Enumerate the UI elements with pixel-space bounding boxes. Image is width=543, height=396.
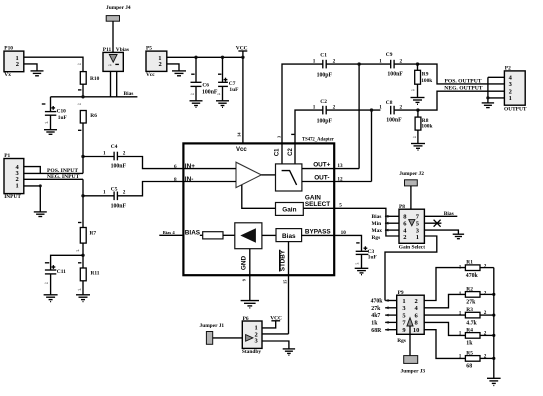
wire P9 pin6 to R3 bbox=[424, 314, 465, 316]
wire R5 to bus bbox=[480, 357, 494, 359]
svg-text:2: 2 bbox=[400, 58, 403, 64]
svg-text:1: 1 bbox=[509, 95, 512, 102]
capacitor C4 bbox=[114, 152, 117, 161]
node C7 tap bbox=[221, 56, 224, 59]
svg-text:NEG. OUTPUT: NEG. OUTPUT bbox=[444, 86, 482, 92]
node OUT- C2 junction bbox=[370, 108, 373, 111]
resistor R9 bbox=[417, 64, 419, 70]
wire P8 pin5 stub bbox=[424, 222, 441, 224]
resistor R5 bbox=[465, 356, 480, 362]
svg-text:100nF: 100nF bbox=[111, 163, 127, 169]
wire P8 Bias stub left bbox=[385, 215, 399, 217]
capacitor C8 bbox=[391, 106, 394, 115]
svg-text:C9: C9 bbox=[386, 52, 393, 58]
wire P9 row5 stub bbox=[385, 329, 397, 331]
pin dash R7-1 bbox=[78, 222, 81, 224]
node C6 tap bbox=[194, 56, 197, 59]
pin dash C3-1 bbox=[356, 242, 359, 244]
wire P2 pin2 stub bbox=[488, 90, 505, 92]
svg-text:c4: c4 bbox=[355, 262, 359, 266]
svg-text:Bias 4: Bias 4 bbox=[163, 230, 176, 235]
wire P9 to J3 bbox=[409, 326, 411, 356]
wire STDBY pin to P6 bbox=[288, 242, 290, 334]
capacitor C11 plus bbox=[52, 265, 56, 269]
node C4 tap bbox=[81, 155, 84, 158]
wire OUT- bbox=[302, 181, 372, 183]
capacitor C5 bbox=[114, 192, 117, 201]
P8 selector triangle bbox=[409, 220, 415, 226]
wire NEG chain down bbox=[82, 179, 84, 227]
wire P10 pin1 to R10 bbox=[24, 57, 83, 71]
svg-text:1: 1 bbox=[313, 104, 316, 110]
svg-text:Bias: Bias bbox=[124, 91, 134, 97]
wire BYPASS to C3 bbox=[334, 235, 361, 251]
svg-text:Max: Max bbox=[372, 228, 383, 234]
P9 selector triangle bbox=[407, 318, 413, 326]
wire P1 pin1 to ground bbox=[24, 186, 41, 212]
pin dash C6-1 bbox=[191, 73, 194, 75]
wire BIAS stub bbox=[159, 234, 182, 236]
ground at C11 bbox=[44, 295, 58, 302]
svg-text:c4: c4 bbox=[45, 281, 49, 285]
wire P9 row4 stub bbox=[385, 321, 397, 323]
svg-text:2: 2 bbox=[484, 264, 487, 270]
wire C1 left bbox=[282, 64, 323, 164]
wire IN- inside bbox=[183, 181, 236, 183]
VCC bar bbox=[238, 50, 247, 52]
svg-text:STDBY: STDBY bbox=[280, 249, 287, 271]
node P2 bus junction bbox=[486, 96, 489, 99]
svg-text:P10: P10 bbox=[4, 46, 13, 52]
ground at R9 bbox=[411, 98, 425, 105]
wire BYPASS inside bbox=[302, 234, 335, 236]
svg-text:TS472_Adapter: TS472_Adapter bbox=[302, 138, 334, 143]
svg-text:12: 12 bbox=[337, 176, 343, 182]
svg-text:R2: R2 bbox=[466, 286, 473, 292]
wire R4 to bus bbox=[480, 334, 494, 336]
ground at C6 bbox=[190, 101, 203, 108]
jumper J3 bbox=[404, 356, 418, 364]
capacitor C7 plus bbox=[224, 78, 228, 82]
svg-text:c4: c4 bbox=[78, 287, 82, 291]
svg-text:1: 1 bbox=[313, 58, 316, 64]
wire R8 to ground bbox=[417, 130, 419, 143]
wire P6 pin3 to ground bbox=[262, 341, 289, 349]
wire P8 pin1 to P9 pin1 bbox=[385, 236, 437, 301]
wire OUT+ bbox=[302, 168, 359, 170]
svg-text:1: 1 bbox=[16, 182, 19, 189]
node R9 junction bbox=[416, 62, 419, 65]
resistor R1 bbox=[465, 265, 480, 271]
arrow 4k7 bbox=[385, 314, 389, 317]
wire POS.OUTPUT bbox=[418, 64, 488, 84]
svg-text:POS. INPUT: POS. INPUT bbox=[47, 168, 78, 174]
svg-text:1uF: 1uF bbox=[58, 115, 68, 121]
wire P8 Min stub bbox=[385, 222, 399, 224]
capacitor C7 bbox=[218, 82, 228, 86]
svg-text:c4: c4 bbox=[411, 88, 415, 92]
resistor R2 bbox=[465, 292, 480, 298]
op-amp U1 outline (TS472 adapter block) bbox=[183, 143, 334, 275]
wire P9 pin2 to R1 bbox=[424, 268, 465, 301]
wire P9 row3 stub bbox=[385, 314, 397, 316]
wire C1 right to OUT+ node bbox=[326, 63, 359, 65]
resistor R8 bbox=[417, 110, 419, 117]
wire C6 to ground bbox=[195, 86, 197, 100]
wire P9 row1 stub bbox=[385, 300, 397, 302]
ground at resistor bus bbox=[487, 378, 501, 385]
wire gain tap bbox=[242, 185, 276, 208]
svg-text:c4: c4 bbox=[191, 92, 195, 96]
pin dash C7-1 bbox=[218, 73, 221, 75]
svg-text:BYPASS: BYPASS bbox=[305, 229, 332, 236]
svg-text:OUT+: OUT+ bbox=[313, 161, 330, 168]
svg-text:C4: C4 bbox=[111, 144, 118, 150]
pin dash R10-2 bbox=[78, 89, 81, 91]
wire amp to Bias block bbox=[262, 234, 276, 236]
svg-text:R3: R3 bbox=[466, 307, 473, 313]
svg-text:4k7: 4k7 bbox=[371, 313, 380, 319]
svg-text:100k: 100k bbox=[421, 124, 432, 130]
capacitor C1 bbox=[323, 60, 326, 69]
bias amp triangle bbox=[240, 228, 256, 242]
svg-text:5: 5 bbox=[339, 203, 342, 209]
svg-text:1uF: 1uF bbox=[229, 87, 239, 93]
svg-text:1: 1 bbox=[103, 190, 106, 196]
svg-text:R6: R6 bbox=[90, 113, 97, 119]
svg-text:GND: GND bbox=[241, 256, 248, 271]
svg-text:Vbias: Vbias bbox=[116, 47, 129, 53]
svg-text:Vcc: Vcc bbox=[146, 72, 155, 78]
connector P5 bbox=[146, 51, 167, 71]
resistor R7 bbox=[80, 228, 86, 244]
svg-text:1: 1 bbox=[459, 354, 462, 360]
svg-text:c4: c4 bbox=[78, 62, 82, 66]
svg-text:1: 1 bbox=[379, 59, 382, 65]
svg-text:68R: 68R bbox=[371, 328, 382, 334]
bias amp block bbox=[235, 223, 262, 249]
limiter curve bbox=[282, 171, 297, 185]
svg-text:100pF: 100pF bbox=[317, 118, 333, 124]
jumper J2 bbox=[405, 180, 418, 186]
ground at P1 bbox=[34, 212, 47, 217]
svg-text:Bias: Bias bbox=[444, 211, 454, 217]
wire C8 to R8 node bbox=[394, 109, 418, 111]
wire P9 row2 stub bbox=[385, 307, 397, 309]
svg-text:C11: C11 bbox=[57, 269, 66, 275]
arrow 1k bbox=[385, 321, 389, 324]
svg-text:Jumper J1: Jumper J1 bbox=[200, 323, 225, 329]
svg-text:R9: R9 bbox=[422, 71, 429, 77]
svg-text:1: 1 bbox=[459, 291, 462, 297]
wire R3 to bus bbox=[480, 314, 494, 316]
svg-text:68: 68 bbox=[466, 364, 472, 370]
svg-text:C7: C7 bbox=[229, 81, 236, 87]
wire J2 to P8 bbox=[410, 186, 412, 220]
capacitor C3 bbox=[356, 251, 369, 254]
svg-text:1: 1 bbox=[416, 234, 419, 241]
svg-text:1: 1 bbox=[103, 150, 106, 156]
arrow 27k bbox=[385, 306, 389, 309]
svg-text:Vx: Vx bbox=[4, 72, 11, 78]
wire P11 pin2 leg bbox=[116, 71, 118, 96]
no-connect X bbox=[434, 220, 441, 227]
svg-text:Vcc: Vcc bbox=[236, 147, 247, 153]
svg-text:27k: 27k bbox=[371, 306, 381, 312]
capacitor C6 bbox=[191, 82, 202, 86]
resistor R4 bbox=[465, 333, 480, 339]
P6 selector triangle bbox=[246, 335, 253, 342]
connector P8 bbox=[399, 209, 424, 243]
svg-text:SELECT: SELECT bbox=[305, 201, 330, 208]
node OUT+ C1 junction bbox=[357, 62, 360, 65]
svg-text:Jumper J3: Jumper J3 bbox=[401, 369, 426, 375]
connector P1 bbox=[4, 159, 24, 194]
wire C2 right to OUT- node bbox=[326, 109, 380, 111]
wire C10 drop bbox=[50, 97, 52, 112]
svg-text:1k: 1k bbox=[371, 321, 378, 327]
svg-text:1: 1 bbox=[459, 264, 462, 270]
node R5 bus bbox=[492, 357, 495, 360]
arrow 68R bbox=[385, 328, 389, 331]
node VCC junction bbox=[241, 56, 244, 59]
wire P2 pin4 stub bbox=[488, 76, 505, 78]
wire C4 to IN+ bbox=[117, 157, 182, 169]
jumper J4 bbox=[106, 16, 119, 22]
wire P9 pin4 to R2 bbox=[424, 294, 465, 307]
node R8 junction bbox=[416, 108, 419, 111]
wire to C5 bbox=[83, 195, 114, 197]
wire GAIN SELECT inside bbox=[303, 207, 334, 209]
svg-text:c4: c4 bbox=[108, 63, 112, 67]
svg-text:Jumper J4: Jumper J4 bbox=[106, 5, 131, 11]
svg-text:1: 1 bbox=[379, 105, 382, 111]
svg-text:NEG. INPUT: NEG. INPUT bbox=[47, 174, 80, 180]
arrow Bias bbox=[385, 215, 389, 218]
pin 1 rotated dash bbox=[291, 133, 294, 135]
wire P2 ground bus bbox=[487, 77, 489, 102]
pin dash C11-1 bbox=[45, 262, 49, 264]
wire GAIN SELECT to P8 pin2 bbox=[334, 208, 399, 236]
wire R2 to bus bbox=[480, 293, 494, 295]
node C5 tap bbox=[81, 194, 84, 197]
svg-text:2: 2 bbox=[403, 234, 406, 241]
wire R1 to bus bbox=[480, 267, 494, 269]
svg-text:2: 2 bbox=[400, 104, 403, 110]
ground at P6 pin3 bbox=[283, 349, 295, 355]
svg-text:1k: 1k bbox=[466, 341, 473, 347]
svg-text:2: 2 bbox=[158, 61, 161, 68]
wire P10 pin2 to ground bbox=[24, 64, 37, 71]
node P1 pin1 corner bbox=[39, 184, 42, 187]
svg-text:c4: c4 bbox=[217, 92, 221, 96]
svg-text:C10: C10 bbox=[57, 109, 67, 115]
wire J4 to P11 bbox=[112, 21, 114, 55]
arrow Min bbox=[385, 222, 389, 225]
svg-text:C8: C8 bbox=[386, 100, 393, 106]
svg-text:P5: P5 bbox=[146, 46, 152, 52]
svg-text:C5: C5 bbox=[111, 186, 118, 192]
wire P8 pin7 Bias stub right bbox=[424, 215, 457, 217]
svg-text:POS. OUTPUT: POS. OUTPUT bbox=[445, 78, 482, 84]
wire P11 pin1 leg bbox=[110, 71, 112, 96]
svg-text:C2: C2 bbox=[288, 148, 294, 156]
svg-text:C2: C2 bbox=[320, 99, 327, 105]
resistor R6 bbox=[80, 111, 86, 124]
svg-text:R7: R7 bbox=[90, 231, 97, 237]
svg-text:8: 8 bbox=[174, 177, 177, 183]
ground at P2 bbox=[482, 103, 494, 108]
wire Vbias node horizontal bbox=[51, 96, 138, 98]
wire P1 pin4 jog bbox=[24, 167, 41, 174]
resistor R10 bbox=[80, 72, 86, 85]
svg-text:R5: R5 bbox=[466, 350, 473, 356]
ground at R8 bbox=[411, 144, 425, 151]
wire C10 to ground bbox=[50, 115, 52, 129]
svg-text:c4: c4 bbox=[76, 249, 80, 253]
resistor R3 bbox=[465, 312, 480, 318]
wire NEG.OUTPUT bbox=[418, 91, 488, 110]
wire C11 to ground bbox=[50, 274, 52, 295]
ground at IC GND bbox=[241, 301, 259, 308]
svg-text:2: 2 bbox=[123, 190, 126, 196]
svg-text:R1: R1 bbox=[466, 260, 473, 266]
wire VCC drop bbox=[242, 51, 244, 57]
wire resistor bus bbox=[493, 268, 495, 378]
capacitor C9 bbox=[391, 60, 394, 69]
svg-text:c4: c4 bbox=[413, 135, 417, 139]
capacitor C2 bbox=[323, 106, 326, 115]
svg-text:C1: C1 bbox=[275, 148, 281, 156]
svg-text:Jumper J2: Jumper J2 bbox=[399, 171, 424, 177]
node R4 bus bbox=[492, 334, 495, 337]
jumper J1 bbox=[206, 332, 212, 345]
ground at P10 bbox=[31, 71, 44, 76]
svg-text:P6: P6 bbox=[243, 316, 249, 322]
svg-text:Rgs: Rgs bbox=[397, 338, 406, 344]
svg-text:6: 6 bbox=[174, 164, 177, 170]
svg-text:100k: 100k bbox=[421, 78, 432, 84]
svg-text:10: 10 bbox=[413, 327, 420, 334]
wire P5 pin1 VCC rail bbox=[167, 56, 243, 58]
svg-text:c4: c4 bbox=[78, 102, 82, 106]
wire R9 to ground bbox=[417, 84, 419, 97]
capacitor C10 bbox=[45, 112, 56, 116]
wire C9 to R9 node bbox=[394, 63, 417, 65]
wire P2 pin3 stub bbox=[488, 83, 505, 85]
wire IN+ inside bbox=[183, 168, 236, 170]
wire R6 bottom to POS node bbox=[82, 123, 84, 173]
svg-text:c4: c4 bbox=[45, 120, 49, 124]
svg-text:470k: 470k bbox=[371, 299, 384, 305]
wire C7 drop bbox=[222, 57, 224, 82]
pin dash R6-2 bbox=[78, 129, 81, 131]
svg-text:470k: 470k bbox=[466, 273, 479, 279]
svg-text:IN+: IN+ bbox=[185, 163, 195, 170]
wire P6 pin2 to STDBY bbox=[262, 333, 289, 335]
svg-text:OUTPUT: OUTPUT bbox=[504, 106, 527, 112]
svg-text:2: 2 bbox=[16, 61, 19, 68]
svg-text:1: 1 bbox=[459, 310, 462, 316]
wire NEG.INPUT bbox=[24, 178, 83, 180]
wire bias res to amp bbox=[223, 234, 235, 236]
wire R11 to ground bbox=[82, 281, 84, 295]
gain block bbox=[276, 203, 304, 216]
op-amp triangle bbox=[236, 162, 261, 187]
node Vbias junction bbox=[81, 95, 84, 98]
svg-text:2: 2 bbox=[123, 150, 126, 156]
wire VCC to P6 pin1 bbox=[262, 321, 276, 328]
svg-text:Rgs: Rgs bbox=[372, 235, 381, 241]
svg-text:C6: C6 bbox=[202, 83, 209, 89]
svg-text:13: 13 bbox=[337, 163, 343, 169]
node R3 bus bbox=[492, 314, 495, 317]
ground at C3 bbox=[355, 268, 369, 274]
svg-text:P8: P8 bbox=[399, 204, 405, 210]
connector P6 bbox=[242, 321, 262, 348]
svg-text:P1: P1 bbox=[4, 153, 10, 159]
svg-text:R4: R4 bbox=[466, 327, 473, 333]
wire P2 pin1 stub bbox=[488, 97, 505, 99]
arrow Max bbox=[385, 229, 389, 232]
svg-text:2: 2 bbox=[484, 290, 487, 296]
wire P8 Max stub bbox=[385, 229, 399, 231]
connector P11 bbox=[103, 52, 123, 71]
svg-text:P9: P9 bbox=[398, 290, 404, 296]
svg-text:Gain: Gain bbox=[282, 206, 296, 213]
wire P9 pin10 to R5 bbox=[424, 330, 465, 359]
svg-text:Gain Select: Gain Select bbox=[399, 244, 425, 250]
svg-text:100nF: 100nF bbox=[386, 117, 402, 123]
wire P5 pin2 to ground bbox=[167, 64, 179, 71]
svg-text:1: 1 bbox=[402, 298, 405, 305]
capacitor C10 plus bbox=[51, 106, 55, 110]
wire opamp out bbox=[261, 174, 275, 176]
capacitor C11 bbox=[45, 270, 56, 274]
capacitor C3 plus bbox=[364, 246, 368, 250]
Bias block bbox=[276, 229, 302, 242]
wire VCC to IC pin 14 bbox=[242, 57, 244, 143]
pin dash C10-1 bbox=[42, 103, 46, 105]
svg-text:Bias: Bias bbox=[282, 233, 296, 240]
svg-text:INPUT: INPUT bbox=[4, 194, 21, 200]
svg-text:IN-: IN- bbox=[185, 176, 194, 183]
svg-text:100nF: 100nF bbox=[387, 71, 403, 77]
wire OUT- riser bbox=[371, 110, 373, 181]
wire to C4 bbox=[83, 156, 114, 158]
pin dash R11-1 bbox=[78, 262, 81, 264]
ground at C7 bbox=[216, 101, 229, 108]
wire POS.INPUT bbox=[24, 172, 83, 174]
VCC bar P6 bbox=[271, 320, 280, 322]
svg-text:100nF: 100nF bbox=[202, 89, 218, 95]
svg-text:OUT-: OUT- bbox=[314, 174, 329, 181]
wire R7 bottom bbox=[82, 243, 84, 268]
ground at P8 pin3 bbox=[453, 234, 464, 239]
ground at R11 bbox=[76, 295, 90, 302]
node R7 C11 junction bbox=[81, 254, 84, 257]
connector P10 bbox=[4, 51, 24, 72]
svg-text:P11: P11 bbox=[103, 47, 112, 53]
wire J1 to P6 bbox=[213, 337, 246, 339]
resistor R11 bbox=[80, 268, 86, 281]
wire OUT+ riser bbox=[358, 64, 360, 169]
svg-text:R10: R10 bbox=[90, 76, 100, 82]
svg-text:R11: R11 bbox=[91, 271, 100, 277]
wire to C11 bbox=[51, 255, 83, 269]
ground at C10 bbox=[44, 130, 57, 135]
svg-text:2: 2 bbox=[333, 104, 336, 110]
